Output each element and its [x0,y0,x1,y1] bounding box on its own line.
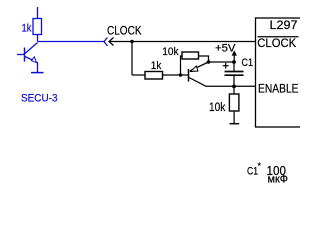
terminal bar [230,123,240,125]
junction [207,60,211,64]
transistor Q2 [189,62,209,86]
IC U1 L297 box [256,18,303,127]
wire [209,61,235,63]
junction [130,40,134,44]
svg-text:L297: L297 [270,18,298,32]
resistor R2 [145,72,163,80]
svg-text:1k: 1k [151,60,162,72]
svg-text:10k: 10k [209,100,226,114]
svg-text:CLOCK: CLOCK [257,36,296,50]
junction [179,73,183,77]
resistor R3 [182,52,199,59]
power +5V [232,51,236,62]
off-page connector arrow (black) [109,38,114,46]
svg-text:C1: C1 [247,166,258,178]
wire [109,41,256,43]
wire [37,35,39,42]
wire [38,41,105,43]
svg-text:CLOCK: CLOCK [107,24,142,38]
svg-text:*: * [258,161,262,171]
wire [163,74,189,76]
svg-text:C1: C1 [242,57,254,69]
wire [181,56,183,75]
transistor Q1 [17,43,44,73]
svg-text:мкФ: мкФ [268,174,289,186]
svg-text:ENABLE: ENABLE [258,82,299,96]
resistor R1 [33,19,42,35]
wire [233,86,235,94]
junction [232,60,236,64]
svg-text:1k: 1k [22,22,32,34]
svg-text:SECU-3: SECU-3 [21,93,58,105]
junction [232,85,236,89]
wire [132,74,145,76]
wire [199,56,209,62]
wire [233,111,235,124]
capacitor C1 [223,62,244,86]
svg-text:+5V: +5V [215,43,236,55]
wire [37,7,39,19]
wire [131,42,133,76]
svg-text:10k: 10k [162,46,179,58]
resistor R4 [229,94,239,111]
off-page connector chevron (blue) [104,38,108,47]
pin CLOCK overline [258,36,299,38]
wire [206,85,256,87]
